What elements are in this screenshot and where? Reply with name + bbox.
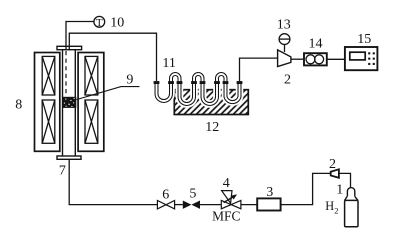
pointer line from label 9 to sample <box>77 87 140 100</box>
furnace left heater top X-box <box>42 56 55 95</box>
purifier box 3 <box>257 198 280 210</box>
furnace left heater bottom X-box <box>42 100 55 143</box>
svg-text:9: 9 <box>126 72 133 87</box>
wire regulator to cylinder 1 <box>339 173 351 187</box>
svg-text:7: 7 <box>59 163 66 178</box>
gauge 13 circle <box>279 34 290 45</box>
furnace left block outline (8) <box>35 53 60 152</box>
heater block 12 hatched <box>174 90 248 115</box>
wire MFC to purifier 3 <box>241 204 257 206</box>
sample bed 9 inside tube <box>63 97 77 108</box>
serpentine joint collars <box>154 81 243 84</box>
thermocouple dashed line inside tube <box>65 51 67 96</box>
svg-text:8: 8 <box>15 97 22 112</box>
MFC valve 4 arrow <box>224 196 234 202</box>
svg-text:6: 6 <box>162 188 169 203</box>
reactor tube walls (7) <box>63 48 76 158</box>
svg-text:5: 5 <box>189 187 196 202</box>
thermometer T circle (10) <box>94 16 105 27</box>
svg-text:12: 12 <box>205 120 219 135</box>
reactor tube bottom flange <box>57 156 81 159</box>
svg-text:4: 4 <box>223 176 230 191</box>
wire meter 14 to analyzer 15 <box>327 58 345 60</box>
MFC valve 4 actuator triangle <box>222 191 232 204</box>
svg-text:2: 2 <box>284 73 291 88</box>
ejector 2 (top) <box>278 50 291 67</box>
svg-text:15: 15 <box>357 32 371 47</box>
reactor tube top flange <box>57 46 82 49</box>
gas cylinder 1 body <box>345 200 358 226</box>
svg-text:11: 11 <box>162 56 175 71</box>
svg-text:2: 2 <box>329 157 336 172</box>
serpentine trap 11 <box>157 74 240 104</box>
gas cylinder 1 shoulder <box>345 196 358 200</box>
furnace right block outline (8) <box>78 53 104 152</box>
svg-text:14: 14 <box>309 37 323 52</box>
wire purifier 3 to regulator 2 <box>281 173 331 204</box>
MFC valve 4 bowtie <box>221 200 241 208</box>
gas meter 14 <box>304 53 327 65</box>
valve 5 filled bowtie <box>183 201 200 209</box>
wire furnace outlet to serpentine <box>69 33 156 81</box>
wire thermocouple to gauge 10 <box>66 22 94 51</box>
furnace right heater bottom X-box <box>85 100 98 143</box>
wire furnace bottom outlet <box>69 159 157 204</box>
wire valve 5 to MFC 4 <box>200 204 221 206</box>
wire between valve 6 and valve 5 <box>175 204 183 206</box>
gauge 13 stem <box>284 45 286 52</box>
analyzer 15 <box>345 47 378 70</box>
valve 6 open bowtie <box>157 201 174 209</box>
svg-text:1: 1 <box>336 183 343 198</box>
svg-text:10: 10 <box>110 16 124 31</box>
svg-text:T: T <box>96 17 103 29</box>
svg-text:13: 13 <box>277 18 291 33</box>
furnace right heater top X-box <box>85 56 98 95</box>
wire ejector to meter 14 <box>291 58 304 60</box>
wire serpentine outlet to ejector 2 <box>240 58 278 81</box>
regulator 2 (cylinder valve) <box>331 169 339 178</box>
svg-text:MFC: MFC <box>212 209 240 224</box>
gas cylinder 1 neck <box>347 188 354 197</box>
svg-text:3: 3 <box>266 185 273 200</box>
